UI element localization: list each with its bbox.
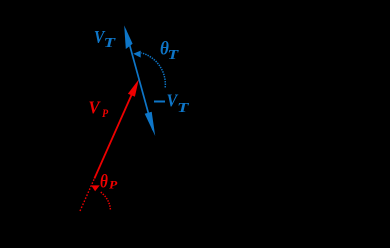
- arc theta_P arrowhead: [91, 185, 100, 191]
- svg-text:θ: θ: [100, 171, 108, 192]
- svg-text:T: T: [177, 99, 189, 115]
- vector -V_T arrowhead (bottom tip): [145, 112, 156, 136]
- wire: blue line through junction (V_T up, -V_T down): [126, 30, 154, 130]
- svg-text:T: T: [104, 34, 116, 50]
- vector V_T arrowhead (top tip): [124, 25, 132, 49]
- wire: dotted lower segment of vector V_P (from origin up to theta_P arc): [80, 179, 94, 212]
- svg-text:P: P: [109, 178, 117, 191]
- arc theta_T (blue dotted arc at junction): [141, 53, 165, 88]
- svg-text:V: V: [88, 98, 101, 118]
- arc theta_T arrowhead: [133, 51, 141, 58]
- arc theta_P (red dotted arc at origin): [100, 192, 111, 210]
- svg-text:T: T: [167, 47, 179, 62]
- vector V_P arrowhead: [128, 79, 139, 96]
- label -V_T: [154, 101, 165, 103]
- vector V_P shaft (solid red): [94, 91, 133, 179]
- svg-text:P: P: [102, 107, 108, 120]
